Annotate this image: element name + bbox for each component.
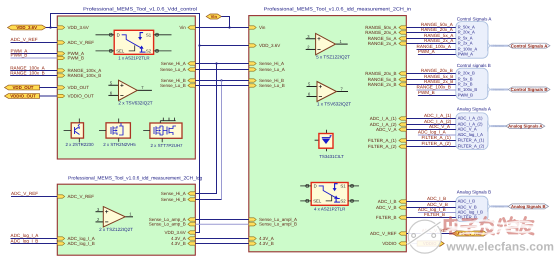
port Control Signals B: [508, 87, 550, 92]
sheet symbol U_idd_measurement_2CH_in (middle block): [249, 16, 406, 252]
svg-text:RANGE_20x_A: RANGE_20x_A: [421, 27, 454, 32]
wire S1 stub U1: [154, 34, 172, 36]
svg-text:RANGE_20x_B: RANGE_20x_B: [365, 71, 396, 76]
port VDD_3.6V: [8, 25, 46, 30]
port Vin: [206, 14, 221, 19]
wire RANGE_2x_A to harness: [406, 43, 456, 45]
svg-text:www.elecfans.com: www.elecfans.com: [446, 240, 554, 254]
wire S2 stub U7: [348, 200, 359, 202]
svg-text:S1: S1: [146, 33, 152, 38]
port Analog Signals B: [508, 204, 549, 209]
svg-text:Sense_Hi_A: Sense_Hi_A: [161, 191, 186, 196]
no-connect S1 U1: [155, 33, 158, 36]
pin RANGE_5x_A (2CH_in right edge): [368, 36, 407, 41]
svg-text:TS3431CILT: TS3431CILT: [319, 154, 344, 159]
wire Sense_Hi_A drop to 2CH_log: [195, 64, 216, 194]
wire Sense_Lo_amp_B: [195, 223, 249, 225]
wire VDD_3.6V riser to top rail: [51, 14, 200, 233]
svg-text:Vin: Vin: [259, 25, 266, 30]
svg-text:RANGE_20x_A: RANGE_20x_A: [365, 30, 396, 35]
svg-text:Professional_MEMS_Tool_v1.0.6_: Professional_MEMS_Tool_v1.0.6_idd_measur…: [68, 175, 203, 181]
wire RANGE_20x_A to harness: [406, 32, 456, 34]
sheet symbol U_Vdd_control (top-left block): [57, 16, 195, 159]
svg-text:PWM_A: PWM_A: [458, 51, 474, 56]
svg-text:ADC_V_REF: ADC_V_REF: [370, 231, 397, 236]
pin RANGE_2x_B (2CH_in right edge): [368, 82, 407, 87]
svg-text:VDD_3.6V: VDD_3.6V: [68, 25, 89, 30]
wire Vin port to bus: [221, 17, 229, 28]
port VDD_OUT: [5, 85, 40, 90]
svg-text:4.3V_B: 4.3V_B: [171, 241, 186, 246]
wire RANGE_2x_B to harness: [406, 84, 456, 86]
pin FILTER_A_(1) (2CH_in right edge): [368, 138, 406, 143]
svg-text:Harness: Harness: [494, 204, 505, 208]
pin Sense_Lo_A (Vdd_control right edge): [160, 67, 195, 72]
wire PWM_B: [11, 57, 58, 59]
svg-text:1 x TSV632IQ2T: 1 x TSV632IQ2T: [317, 101, 351, 106]
wire RANGE_100x_B: [10, 75, 57, 77]
svg-text:FILTER_A_(1): FILTER_A_(1): [368, 138, 397, 143]
no-connect SEL U1: [109, 49, 112, 52]
wire ADC_I_B to harness: [406, 201, 456, 203]
svg-text:Analog Signals B: Analog Signals B: [457, 189, 491, 194]
wire Sense_Lo_A: [195, 69, 249, 71]
svg-text:ADC_I_B: ADC_I_B: [458, 198, 476, 203]
pin ADC_I_B (2CH_in right edge): [378, 199, 407, 204]
svg-text:VDDIO_OUT: VDDIO_OUT: [68, 94, 95, 99]
pin ADC_V_B (2CH_in right edge): [376, 205, 406, 210]
pin Sense_Lo_amp_A (2CH_log right edge): [149, 217, 196, 222]
svg-text:PWM_A: PWM_A: [418, 49, 436, 54]
svg-text:FILTER_A_(2): FILTER_A_(2): [458, 143, 485, 148]
svg-text:ADC_V_B: ADC_V_B: [376, 205, 397, 210]
wire Sense_Hi_B drop to 2CH_log: [221, 81, 223, 200]
svg-text:VDDIO: VDDIO: [382, 241, 397, 246]
pin Sense_Hi_B (2CH_log right edge): [161, 197, 196, 202]
pin Sense_Lo_ampl_A (2CH_in left edge): [249, 217, 297, 222]
pin RANGE_2x_A (2CH_in right edge): [368, 41, 407, 46]
pin Vin (Vdd_control right edge): [179, 25, 195, 30]
pin ADC_log_I_A (2CH_log left edge): [57, 236, 94, 241]
svg-text:Sense_Hi_B: Sense_Hi_B: [161, 197, 186, 202]
pin RANGE_20x_A (2CH_in right edge): [365, 30, 406, 35]
transistor Q3 2 x STT7P2UH7: [143, 118, 183, 148]
svg-text:Harness: Harness: [494, 88, 505, 92]
svg-text:ADC_V_REF: ADC_V_REF: [11, 37, 38, 42]
pin Sense_Hi_B (Vdd_control right edge): [161, 78, 196, 83]
pin Sense_Lo_B (2CH_in left edge): [249, 83, 285, 88]
wire D stub U7: [300, 185, 311, 187]
svg-text:S1: S1: [340, 184, 346, 189]
transistor Q2 2 x STR2N2VH5: [99, 119, 136, 148]
op-amp U2 2 x TSV632IQ2T: [108, 80, 152, 105]
svg-text:ADC_I_A_(1): ADC_I_A_(1): [370, 116, 397, 121]
svg-text:Professional_MEMS_Tool_v1.0.6_: Professional_MEMS_Tool_v1.0.6_Vdd_contro…: [83, 6, 197, 12]
svg-text:Control Signals A: Control Signals A: [457, 17, 492, 22]
no-connect S2 U1: [155, 49, 158, 52]
pin 4.3V_A (2CH_in left edge): [249, 236, 274, 241]
pin RANGE_100x_A (Vdd_control left edge): [57, 68, 101, 73]
svg-text:ADC_I_B: ADC_I_B: [427, 196, 446, 201]
junction Sense_Hi_A: [215, 62, 217, 64]
no-connect SEL U7: [306, 199, 309, 202]
svg-text:2 x STT7P2UH7: 2 x STT7P2UH7: [151, 143, 184, 148]
pin Sense_Hi_A (2CH_in left edge): [249, 61, 284, 66]
voltage reference U6 TS3431CILT: [315, 130, 344, 159]
svg-text:RANGE_20x_B: RANGE_20x_B: [421, 68, 453, 73]
wire D stub U1: [96, 34, 115, 36]
wire PWM_A: [11, 53, 58, 55]
pin Sense_Lo_amp_B (2CH_log right edge): [149, 222, 196, 227]
svg-text:Professional_MEMS_Tool_v1.0.6_: Professional_MEMS_Tool_v1.0.6_idd_measur…: [264, 6, 412, 12]
svg-text:PWM_B: PWM_B: [418, 90, 435, 95]
watermark chinese characters: [445, 218, 533, 235]
op-amp U5 1 x TSV632IQ2T: [307, 82, 352, 107]
wire SEL stub U7: [300, 200, 311, 202]
harness tab Analog Signals A: [488, 121, 491, 132]
pin PWM_B (Vdd_control left edge): [57, 56, 84, 61]
harness Analog Signals A: [456, 113, 488, 150]
pin Vin (2CH_in left edge): [249, 25, 266, 30]
svg-text:R_2x_A: R_2x_A: [458, 40, 473, 45]
svg-text:ADC_V_REF: ADC_V_REF: [11, 191, 38, 196]
svg-text:ADC_V_A: ADC_V_A: [376, 127, 397, 132]
svg-text:RANGE_2x_A: RANGE_2x_A: [368, 41, 397, 46]
svg-text:Sense_Lo_ampl_B: Sense_Lo_ampl_B: [259, 222, 297, 227]
svg-text:5 x TSZ122IQ2T: 5 x TSZ122IQ2T: [316, 54, 350, 59]
svg-text:Sense_Lo_A: Sense_Lo_A: [259, 67, 285, 72]
junction VDD_3.6V branch: [49, 26, 51, 28]
svg-text:FILTER_A_(2): FILTER_A_(2): [368, 144, 397, 149]
svg-text:Vin: Vin: [179, 25, 186, 30]
wire VDD_3.6V to 2CH_in pin: [200, 45, 249, 47]
port Control Signals A: [508, 43, 550, 48]
svg-text:ADC_I_A_(1): ADC_I_A_(1): [424, 113, 452, 118]
pin RANGE_5x_B (2CH_in right edge): [368, 77, 407, 82]
svg-text:ADC_V_A: ADC_V_A: [458, 126, 477, 131]
wire RANGE_5x_A to harness: [406, 38, 456, 40]
wire SEL stub U1: [96, 50, 115, 52]
wire RANGE_100x_A: [10, 70, 57, 72]
svg-text:ADC_log_I_B: ADC_log_I_B: [11, 238, 39, 243]
wire ADC_I_A_(2) to harness: [406, 124, 456, 126]
svg-text:Sense_Hi_A: Sense_Hi_A: [161, 61, 186, 66]
no-connect D U1: [109, 33, 112, 36]
svg-text:ADC_log_I_B: ADC_log_I_B: [68, 241, 95, 246]
svg-text:R_20x_A: R_20x_A: [458, 29, 475, 34]
harness tab Analog Signals B: [488, 201, 491, 212]
pin 4.3V_B (2CH_log right edge): [171, 241, 195, 246]
pin RANGE_50x_A (2CH_in right edge): [365, 25, 406, 30]
pin 4.3V_A (2CH_log right edge): [171, 236, 195, 241]
wire RANGE_5x_B to harness: [406, 79, 456, 81]
wire Sense_Hi_A: [195, 63, 249, 65]
wire VDD_OUT: [40, 87, 58, 89]
analog switch U7 4 x AS21P2TLR: [311, 183, 348, 212]
pin Sense_Lo_B (Vdd_control right edge): [160, 83, 195, 88]
wire RANGE_50x_A to harness: [406, 27, 456, 29]
wire ADC_V_REF to 2CH_log: [11, 196, 57, 198]
svg-text:Harness: Harness: [494, 44, 505, 48]
no-connect D U7: [306, 184, 309, 187]
svg-text:SEL: SEL: [116, 49, 125, 54]
wire ADC_V_REF to port: [406, 233, 452, 235]
pin VDD_3.6V (2CH_log right edge): [165, 230, 196, 235]
no-connect S1 U7: [350, 184, 353, 187]
pin VDD_3.6V (2CH_in left edge): [249, 43, 280, 48]
svg-text:Sense_Lo_A: Sense_Lo_A: [160, 67, 186, 72]
svg-text:Sense_Lo_B: Sense_Lo_B: [259, 83, 285, 88]
harness cable Control signals B: [491, 89, 509, 91]
junction VDD_3.6V at 2CH_in feed: [198, 44, 200, 46]
svg-text:ADC_log_I_A: ADC_log_I_A: [418, 130, 447, 135]
svg-text:S2: S2: [146, 49, 152, 54]
svg-text:VDD_3.6V: VDD_3.6V: [16, 25, 37, 30]
svg-text:ADC_I_A_(1): ADC_I_A_(1): [458, 115, 484, 120]
pin RANGE_20x_B (2CH_in right edge): [365, 71, 406, 76]
pin ADC_I_A_(1) (2CH_in right edge): [370, 116, 407, 121]
wire Vin between blocks: [195, 27, 249, 29]
svg-text:Control Signals B: Control Signals B: [511, 87, 548, 92]
svg-text:FILTER_B: FILTER_B: [376, 215, 397, 220]
svg-text:S2: S2: [340, 199, 346, 204]
svg-text:ADC_V_A: ADC_V_A: [429, 124, 451, 129]
harness Analog Signals B: [456, 196, 488, 222]
wire RANGE_100x_A stub to harness: [417, 49, 456, 51]
no-connect S2 U7: [350, 199, 353, 202]
harness cable Analog Signals A: [491, 125, 506, 127]
wire VDDIO to port: [406, 243, 417, 245]
svg-text:Sense_Lo_amp_B: Sense_Lo_amp_B: [149, 222, 186, 227]
pin 4.3V_B (2CH_in left edge): [249, 241, 274, 246]
svg-text:SEL: SEL: [313, 199, 322, 204]
wire 4.3V_B: [195, 243, 249, 245]
svg-text:PWM_B: PWM_B: [458, 92, 474, 97]
port Analog Signals A: [506, 124, 545, 129]
wire ADC_I_A_(1) to harness: [406, 118, 456, 120]
svg-text:VDD_OUT: VDD_OUT: [68, 85, 90, 90]
svg-text:Analog Signals A: Analog Signals A: [508, 124, 542, 129]
svg-text:VDD_OUT: VDD_OUT: [13, 85, 34, 90]
pin ADC_I_A_(2) (2CH_in right edge): [370, 122, 407, 127]
svg-text:Harness: Harness: [494, 124, 505, 128]
svg-text:FILTER_B: FILTER_B: [424, 212, 445, 217]
svg-text:Control signals B: Control signals B: [457, 63, 491, 68]
svg-text:D: D: [314, 184, 317, 189]
pin Sense_Lo_A (2CH_in left edge): [249, 67, 285, 72]
svg-text:FILTER_A_(1): FILTER_A_(1): [422, 135, 452, 140]
harness Control signals B: [456, 68, 488, 99]
pin VDDIO (2CH_in right edge): [382, 241, 406, 246]
svg-text:ADC_V_REF: ADC_V_REF: [68, 40, 95, 45]
wire S1 stub U7: [348, 185, 359, 187]
harness cable Analog Signals B: [491, 205, 509, 207]
wire RANGE_20x_B to harness: [406, 73, 456, 75]
junction Sense_Hi_B: [220, 79, 222, 81]
svg-text:R_20x_B: R_20x_B: [458, 70, 475, 75]
pin ADC_V_REF (2CH_log left edge): [57, 194, 94, 199]
wire Sense_Hi_B: [195, 80, 249, 82]
svg-text:Vin: Vin: [211, 14, 218, 19]
pin RANGE_100x_B (Vdd_control left edge): [57, 73, 101, 78]
svg-text:ADC_V_REF: ADC_V_REF: [68, 194, 95, 199]
watermark white brush scribble: [447, 220, 537, 234]
pin VDDIO_OUT (Vdd_control left edge): [57, 94, 94, 99]
wire RANGE_100x_B stub to harness: [417, 89, 456, 91]
wire S2 stub U1: [154, 50, 172, 52]
svg-text:4.3V_B: 4.3V_B: [259, 241, 274, 246]
pin Sense_Lo_ampl_B (2CH_in left edge): [249, 222, 297, 227]
svg-text:RANGE_100x_B: RANGE_100x_B: [68, 73, 102, 78]
port ADC_V_REF: [453, 231, 488, 236]
wire VDDIO_OUT: [40, 95, 58, 97]
port VDDIO: [417, 241, 444, 246]
svg-text:ADC_I_B: ADC_I_B: [378, 199, 397, 204]
svg-text:4 x AS21P2TLR: 4 x AS21P2TLR: [314, 206, 345, 211]
wire Sense_Lo_amp_A: [195, 219, 249, 221]
svg-text:ADC_log_I_A: ADC_log_I_A: [458, 132, 484, 137]
svg-text:2 x STR2N2VH5: 2 x STR2N2VH5: [103, 142, 136, 147]
svg-text:PWM_B: PWM_B: [68, 56, 85, 61]
svg-text:VDDIO_OUT: VDDIO_OUT: [10, 94, 36, 99]
wire ADC_log_I_A stub to harness: [418, 134, 456, 136]
junction Vin: [228, 26, 230, 28]
svg-text:R_100x_B: R_100x_B: [458, 87, 478, 92]
wire Sense_Hi_B drop bottom: [195, 199, 221, 201]
watermark stamp circle: [408, 220, 442, 253]
svg-text:VDD_3.6V: VDD_3.6V: [259, 43, 280, 48]
harness Control Signals A: [456, 22, 488, 59]
op-amp U3 2 x TSZ122IQ2T: [96, 207, 134, 233]
pin VDD_3.6V (Vdd_control left edge): [57, 25, 88, 30]
pin Sense_Hi_B (2CH_in left edge): [249, 78, 284, 83]
svg-text:RANGE_2x_A: RANGE_2x_A: [424, 38, 454, 43]
wire Sense_Lo_B: [195, 85, 249, 87]
wire VDD_3.6V port to pin: [46, 27, 57, 29]
wire ADC_log_I_B: [11, 243, 58, 245]
svg-text:FILTER_A_(2): FILTER_A_(2): [422, 141, 452, 146]
svg-text:VDD_3.6V: VDD_3.6V: [165, 230, 186, 235]
pin VDD_OUT (Vdd_control left edge): [57, 85, 89, 90]
wire ADC_log_I_A: [11, 238, 58, 240]
svg-text:R_2x_B: R_2x_B: [458, 81, 473, 86]
transistor Q1 2 x 2STR2230: [64, 119, 94, 148]
svg-text:Sense_Hi_A: Sense_Hi_A: [259, 61, 284, 66]
svg-text:Sense_Lo_B: Sense_Lo_B: [160, 83, 186, 88]
svg-text:2 x 2STR2230: 2 x 2STR2230: [65, 142, 94, 147]
op-amp U4 5 x TSZ122IQ2T: [306, 33, 350, 59]
svg-text:RANGE_2x_B: RANGE_2x_B: [424, 79, 453, 84]
svg-text:RANGE_100x_B: RANGE_100x_B: [417, 85, 451, 90]
svg-text:RANGE_2x_B: RANGE_2x_B: [368, 82, 397, 87]
svg-text:RANGE_100x_B: RANGE_100x_B: [10, 70, 44, 75]
wire FILTER_A_(2) to harness: [406, 146, 456, 148]
pin ADC_V_A (2CH_in right edge): [376, 127, 406, 132]
wire PWM_A stub to harness: [418, 54, 456, 56]
wire ADC_log_I_B stub to harness: [418, 212, 456, 214]
svg-text:2 x TSV632IQ2T: 2 x TSV632IQ2T: [118, 101, 152, 106]
svg-text:FILTER_A_(1): FILTER_A_(1): [458, 137, 485, 142]
pin FILTER_B (2CH_in right edge): [376, 215, 406, 220]
wire ADC_V_A to harness: [406, 129, 456, 131]
analog switch U1 1 x AS21P2TLR: [114, 30, 153, 60]
pin ADC_V_REF (2CH_in right edge): [370, 231, 406, 236]
sheet symbol U_idd_measurement_2CH_log (bottom-left block): [57, 184, 195, 255]
svg-text:1 x AS21P2TLR: 1 x AS21P2TLR: [118, 55, 149, 60]
pin ADC_log_I_B (2CH_log left edge): [57, 241, 94, 246]
pin Sense_Hi_A (2CH_log right edge): [161, 191, 196, 196]
svg-text:Control Signals A: Control Signals A: [511, 43, 548, 48]
wire ADC_V_REF: [11, 42, 58, 44]
svg-text:2 x TSZ122IQ2T: 2 x TSZ122IQ2T: [99, 227, 133, 232]
pin FILTER_A_(2) (2CH_in right edge): [368, 144, 406, 149]
wire 4.3V_A: [195, 238, 249, 240]
svg-text:Analog Signals B: Analog Signals B: [511, 204, 545, 209]
wire ADC_V_B to harness: [406, 207, 456, 209]
harness tab Control signals B: [488, 84, 491, 95]
port VDDIO_OUT: [5, 94, 40, 99]
harness cable Control Signals A: [491, 45, 509, 47]
pin Sense_Hi_A (Vdd_control right edge): [161, 61, 196, 66]
wire FILTER_A_(1) to harness: [406, 140, 456, 142]
wire FILTER_B to harness: [406, 217, 456, 219]
svg-text:PWM_B: PWM_B: [11, 52, 28, 57]
svg-text:Analog Signals A: Analog Signals A: [457, 107, 491, 112]
pin ADC_V_REF (Vdd_control left edge): [57, 40, 94, 45]
svg-text:D: D: [117, 33, 120, 38]
harness tab Control Signals A: [488, 40, 491, 51]
wire PWM_B stub to harness: [418, 95, 456, 97]
pin PWM_A (Vdd_control left edge): [57, 51, 84, 56]
